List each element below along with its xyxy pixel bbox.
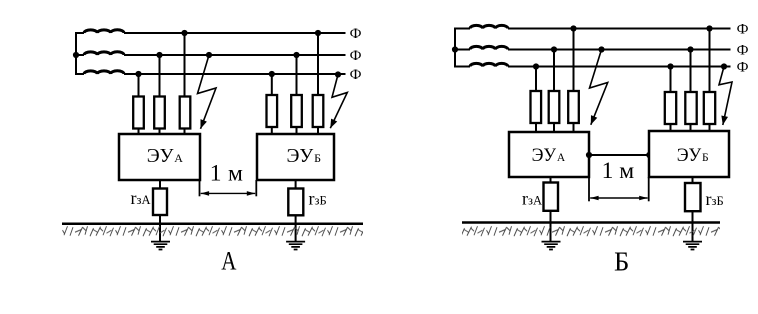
wire ground lead EUA (diagram A) xyxy=(159,180,161,242)
electrical unit EUB box (diagram A) xyxy=(257,134,334,180)
svg-text:Ф: Ф xyxy=(737,22,749,38)
fuse FU2 of EUB (diagram B) xyxy=(685,92,696,124)
wire phase 1 (top, diagram B) xyxy=(454,28,731,30)
lightning fault arrow to EUB (diagram A) xyxy=(330,75,347,129)
fuse FU2 of EUA (diagram A) xyxy=(154,97,165,129)
svg-text:rзА: rзА xyxy=(131,188,151,208)
node neutral junction (diagram B) xyxy=(452,46,458,52)
ground surface hatching (diagram B) xyxy=(462,224,720,237)
ground surface line (diagram B) xyxy=(462,221,720,224)
svg-text:1 м: 1 м xyxy=(210,161,243,187)
node neutral junction (diagram A) xyxy=(73,52,79,58)
fuse FU3 of EUA (diagram A) xyxy=(180,97,191,129)
ground electrode symbol of EUA (diagram A) xyxy=(151,242,170,250)
node tap EUA phase3 (diagram A) xyxy=(135,71,141,77)
fuse FU2 of EUA (diagram B) xyxy=(549,91,560,123)
transformer winding L3 (bottom phase coil, diagram A) xyxy=(84,71,124,74)
fuse FU3 of EUB (diagram B) xyxy=(704,92,715,124)
wire ground lead EUB (diagram A) xyxy=(295,180,297,242)
svg-text:rзА: rзА xyxy=(522,189,542,209)
svg-text:Ф: Ф xyxy=(350,26,362,42)
dimension arrow 1 m (diagram A) xyxy=(201,192,256,194)
electrical unit EUA box (diagram B) xyxy=(509,132,589,177)
wire tap EUA phase3 to fuse (diagram B) xyxy=(535,67,537,133)
node lightning tap on phase2 (diagram A) xyxy=(206,52,212,58)
wire tap EUA phase2 to fuse (diagram A) xyxy=(159,55,161,134)
lightning fault arrow to EUB (diagram B) xyxy=(719,67,732,126)
wire tap EUB phase3 to fuse (diagram B) xyxy=(670,67,672,132)
wire extension line right (dimension, diagram A) xyxy=(255,180,257,196)
node tap EUB phase1 (diagram B) xyxy=(706,25,712,31)
wire tap EUA phase2 to fuse (diagram B) xyxy=(553,50,555,133)
wire extension line left (dimension, diagram A) xyxy=(199,180,201,196)
fuse FU1 of EUA (diagram B) xyxy=(531,91,542,123)
electrical unit EUB box (diagram B) xyxy=(649,131,729,177)
wire bonding conductor between EUA and EUB (diagram B) xyxy=(589,154,649,156)
wire tap EUA phase3 to fuse (diagram A) xyxy=(138,74,140,134)
svg-text:Б: Б xyxy=(614,246,629,276)
lightning fault arrow to EUA (diagram B) xyxy=(590,50,608,125)
wire extension line left (dimension, diagram B) xyxy=(588,177,590,201)
transformer winding L2 (middle phase coil, diagram A) xyxy=(84,52,124,55)
node tap EUB phase2 (diagram A) xyxy=(293,52,299,58)
svg-text:rзБ: rзБ xyxy=(309,189,327,209)
ground surface hatching (diagram A) xyxy=(62,225,363,238)
wire tap EUB phase1 to fuse (diagram B) xyxy=(709,29,711,132)
resistor rzB ground resistance (diagram A) xyxy=(288,189,303,216)
node lightning tap on phase3 (diagram A) xyxy=(335,71,341,77)
svg-text:Ф: Ф xyxy=(737,43,749,59)
wire phase 2 (middle, diagram B) xyxy=(454,49,731,51)
resistor rzA ground resistance (diagram B) xyxy=(544,183,559,211)
fuse FU1 of EUA (diagram A) xyxy=(133,97,144,129)
node tap EUA phase3 (diagram B) xyxy=(533,63,539,69)
fuse FU3 of EUB (diagram A) xyxy=(313,95,324,127)
wire tap EUB phase1 to fuse (diagram A) xyxy=(317,33,319,134)
svg-text:Ф: Ф xyxy=(350,67,362,83)
wire tap EUB phase3 to fuse (diagram A) xyxy=(271,74,273,134)
ground surface line (diagram A) xyxy=(62,223,363,226)
node tap EUB phase2 (diagram B) xyxy=(687,46,693,52)
node tap EUA phase2 (diagram B) xyxy=(551,46,557,52)
fuse FU1 of EUB (diagram B) xyxy=(665,92,676,124)
wire phase 3 (bottom, diagram A) xyxy=(75,73,346,75)
resistor rzB ground resistance (diagram B) xyxy=(685,183,701,211)
wire tap EUB phase2 to fuse (diagram A) xyxy=(296,55,298,134)
node tap EUB phase3 (diagram B) xyxy=(667,63,673,69)
wire tap EUB phase2 to fuse (diagram B) xyxy=(690,50,692,132)
electrical unit EUA box (diagram A) xyxy=(119,134,200,180)
svg-text:rзБ: rзБ xyxy=(706,189,724,209)
wire phase 1 (top, diagram A) xyxy=(75,32,346,34)
lightning fault arrow to EUA (diagram A) xyxy=(198,55,217,129)
node lightning tap on phase3 (diagram B) xyxy=(721,63,727,69)
svg-text:Ф: Ф xyxy=(350,48,362,64)
node tap EUB phase3 (diagram A) xyxy=(269,71,275,77)
svg-text:Ф: Ф xyxy=(737,60,749,76)
wire tap EUA phase1 to fuse (diagram A) xyxy=(184,33,186,134)
resistor rzA ground resistance (diagram A) xyxy=(153,189,167,216)
wire tap EUA phase1 to fuse (diagram B) xyxy=(573,29,575,133)
fuse FU2 of EUB (diagram A) xyxy=(291,95,302,127)
node tap EUB phase1 (diagram A) xyxy=(315,30,321,36)
fuse FU1 of EUB (diagram A) xyxy=(267,95,278,127)
wire phase 2 (middle, diagram A) xyxy=(75,54,346,56)
node tap EUA phase1 (diagram B) xyxy=(570,25,576,31)
ground electrode symbol of EUB (diagram B) xyxy=(683,242,702,250)
transformer winding L3 (bottom phase coil, diagram B) xyxy=(470,63,508,66)
wire ground lead EUA (diagram B) xyxy=(550,177,552,242)
node bonding at EUA (diagram B) xyxy=(586,152,592,158)
wire neutral bus (diagram A) xyxy=(75,32,77,75)
node lightning tap on phase2 (diagram B) xyxy=(598,46,604,52)
wire ground lead EUB (diagram B) xyxy=(692,177,694,242)
transformer winding L2 (middle phase coil, diagram B) xyxy=(470,46,508,49)
node tap EUA phase1 (diagram A) xyxy=(181,30,187,36)
wire phase 3 (bottom, diagram B) xyxy=(454,66,731,68)
ground electrode symbol of EUA (diagram B) xyxy=(542,242,561,250)
dimension arrow 1 m (diagram B) xyxy=(590,197,647,199)
ground electrode symbol of EUB (diagram A) xyxy=(286,242,305,250)
svg-text:А: А xyxy=(221,247,236,276)
wire extension line right (dimension, diagram B) xyxy=(648,177,650,201)
node bonding at EUB (diagram B) xyxy=(646,152,652,158)
wire neutral bus (diagram B) xyxy=(454,28,456,68)
svg-text:1 м: 1 м xyxy=(602,158,635,184)
transformer winding L1 (top phase coil, diagram B) xyxy=(470,25,508,28)
transformer winding L1 (top phase coil, diagram A) xyxy=(84,30,124,33)
node tap EUA phase2 (diagram A) xyxy=(156,52,162,58)
fuse FU3 of EUA (diagram B) xyxy=(568,91,579,123)
